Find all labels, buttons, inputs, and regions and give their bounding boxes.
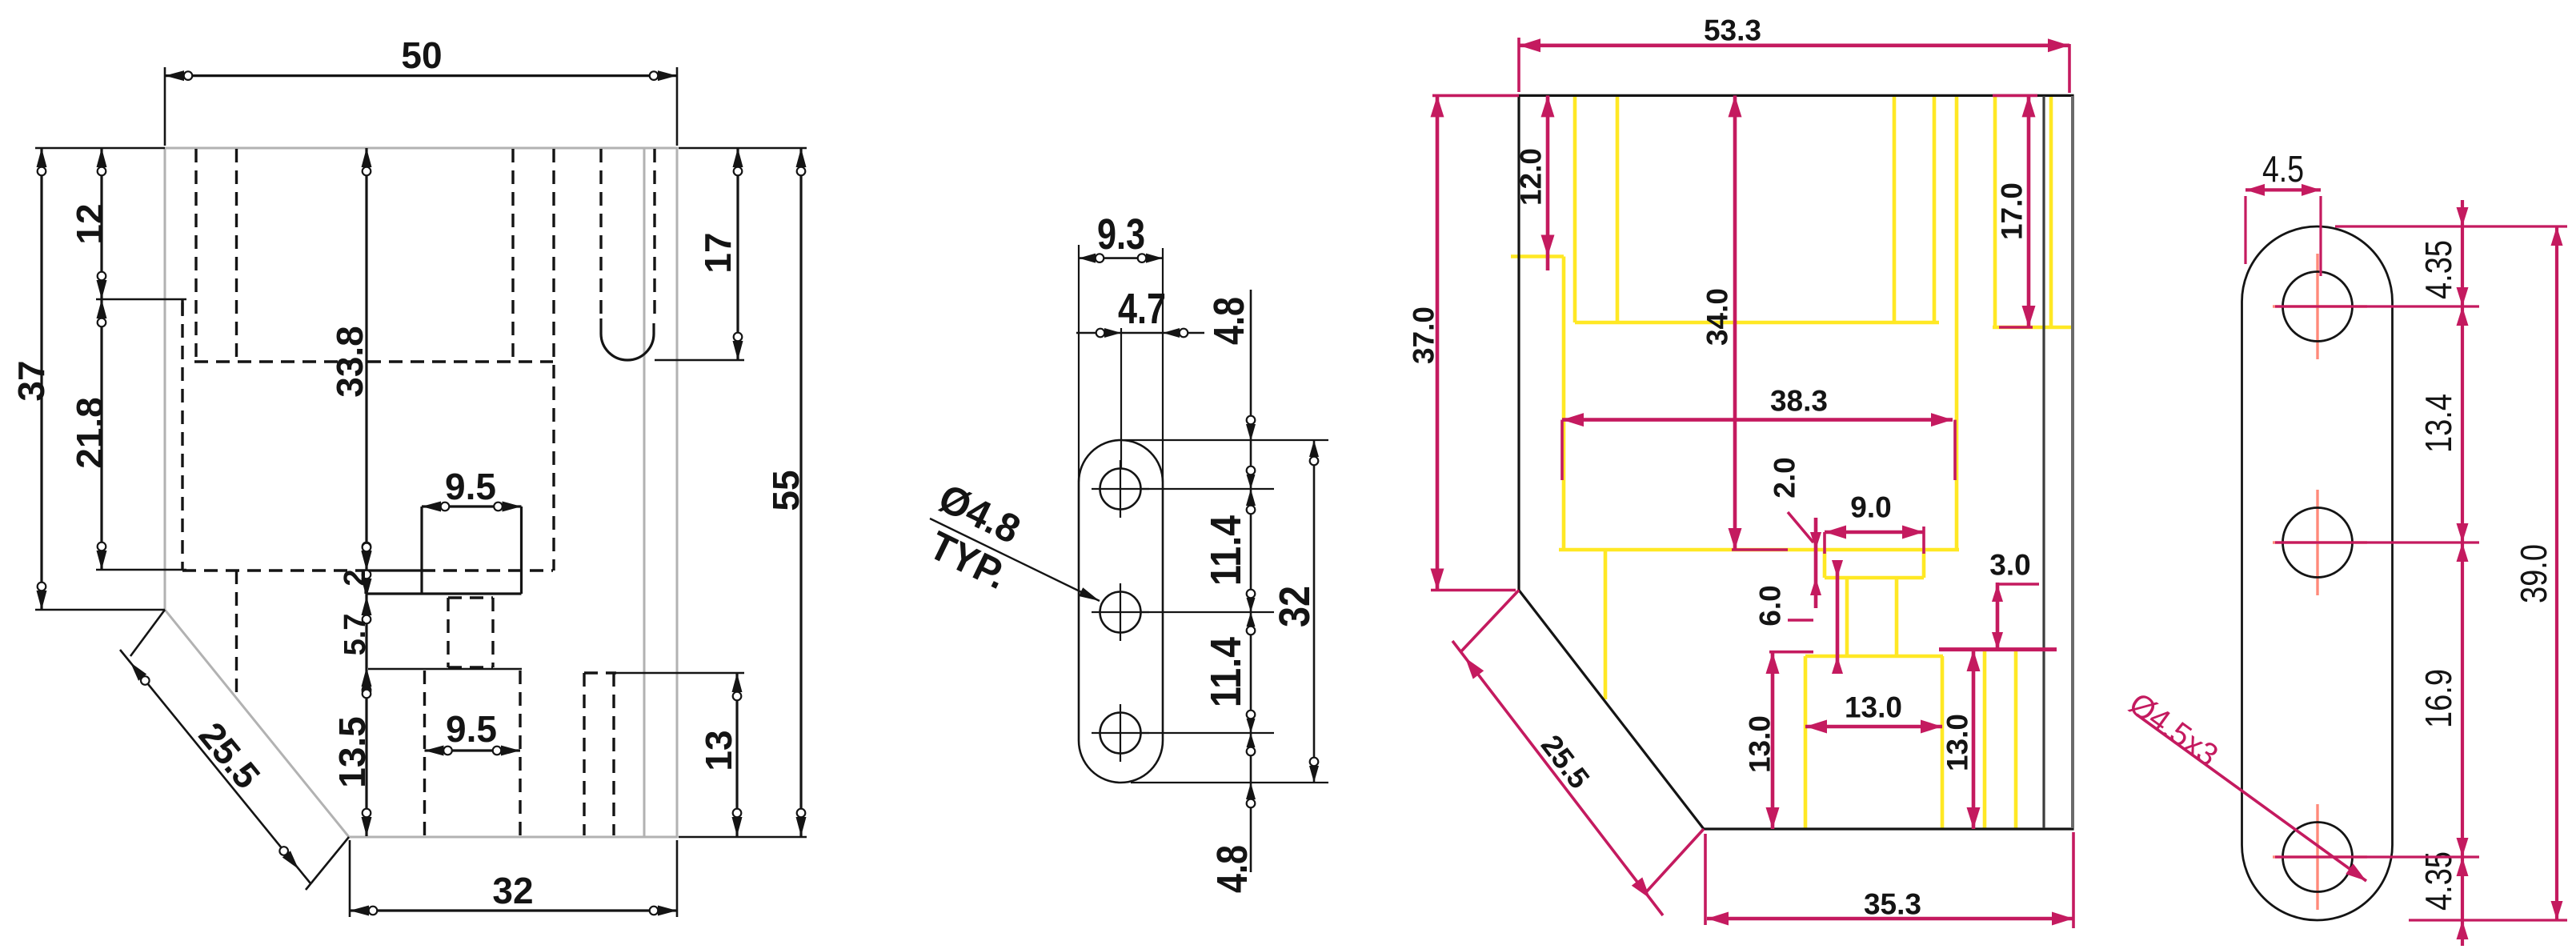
hidden edge: center verticals — [511, 149, 514, 362]
hidden edge: long horizontal at 452 — [194, 360, 553, 362]
dimension 13 (lower right) — [614, 673, 744, 836]
dimension 12.0 — [1515, 95, 1555, 270]
svg-text:4.8: 4.8 — [1205, 297, 1253, 345]
svg-text:9.5: 9.5 — [446, 708, 497, 750]
svg-text:11.4: 11.4 — [1202, 637, 1250, 707]
yellow hidden: long horizontal — [1575, 321, 1939, 325]
dimension 25.5 (chamfer) — [120, 610, 349, 890]
svg-text:6.0: 6.0 — [1754, 585, 1787, 626]
U-shaped slot (solid) — [601, 318, 654, 360]
yellow hidden: left step — [1511, 254, 1564, 258]
svg-text:4.7: 4.7 — [1118, 285, 1166, 333]
bend line (gray) — [643, 149, 646, 836]
hidden edge: lower 9.5 slot — [423, 671, 426, 835]
svg-text:13.0: 13.0 — [1941, 714, 1974, 771]
dimension 35.3 — [1705, 832, 2073, 928]
hidden edge: left step vertical — [181, 302, 183, 570]
dimension 50 (top) — [165, 34, 677, 146]
hole center marks — [1092, 460, 1149, 762]
svg-text:50: 50 — [401, 34, 442, 76]
svg-text:2.0: 2.0 — [1769, 457, 1801, 498]
hole 3 — [1100, 713, 1141, 754]
view 4: slotted strip (black outline, magenta dims) — [2122, 148, 2567, 946]
yellow hidden: center verticals — [1893, 97, 1897, 322]
hidden edge: horizontal at 713 — [182, 569, 367, 571]
svg-text:3.0: 3.0 — [1989, 549, 2030, 582]
dimension 4.7 — [1076, 285, 1204, 468]
plate outline (stadium) — [2242, 226, 2393, 920]
svg-text:12.0: 12.0 — [1515, 148, 1548, 206]
view 2: slotted strip side view (black) — [923, 210, 1328, 893]
dimension 2.0 with leader — [1769, 457, 1822, 608]
leader Ø4.5x3 — [2122, 687, 2366, 881]
hole center marks (salmon) — [2273, 254, 2367, 910]
view 3: colored flat-pattern (magenta dims, yellow hidden lines) — [1408, 14, 2075, 929]
dimension 4.5 — [2245, 148, 2321, 276]
dimension 33.8 / 2 / 5.7 / 13.5 column — [329, 148, 522, 836]
svg-text:39.0: 39.0 — [2513, 544, 2554, 603]
hidden edge: slot sides — [599, 149, 602, 320]
svg-text:38.3: 38.3 — [1770, 385, 1828, 418]
svg-text:13.5: 13.5 — [331, 716, 373, 788]
dimension 12 — [69, 148, 186, 299]
part outline (black) — [1519, 95, 2073, 829]
svg-text:12: 12 — [69, 203, 110, 244]
dimension 25.5 (view3 chamfer) — [1452, 591, 1704, 916]
svg-text:4.5: 4.5 — [2262, 148, 2304, 190]
svg-text:55: 55 — [765, 470, 807, 511]
svg-text:13.4: 13.4 — [2418, 394, 2459, 453]
svg-text:9.0: 9.0 — [1850, 491, 1891, 524]
yellow hidden: long center vertical — [1955, 97, 1959, 550]
svg-text:9.5: 9.5 — [445, 466, 496, 507]
dimension 32 (view2) — [1124, 440, 1328, 783]
hidden edge: upper-left verticals — [194, 149, 197, 362]
dimension 37.0 — [1408, 95, 1520, 590]
svg-text:21.8: 21.8 — [69, 397, 110, 469]
dimension column 4.35 / 13.4 / 16.9 / 4.35 — [2418, 200, 2469, 946]
dimension 55 (right) — [679, 148, 807, 837]
svg-text:2: 2 — [339, 569, 372, 586]
bend line — [2042, 96, 2045, 828]
dimension 9.5 (lower) — [425, 708, 521, 756]
dimension 9.5 (upper) — [422, 466, 522, 512]
yellow hidden: lower 13.0 box — [1805, 655, 1943, 659]
solid tab feature — [366, 507, 522, 594]
dimension 13.0 middle — [1805, 691, 1942, 734]
hidden lines (dashed) — [182, 149, 655, 835]
dimension 9.3 — [1079, 210, 1163, 482]
dimension 17.0 — [1993, 95, 2037, 327]
svg-text:13.0: 13.0 — [1744, 715, 1777, 773]
svg-text:32: 32 — [1271, 586, 1319, 627]
hole A — [2283, 272, 2353, 342]
svg-text:17: 17 — [697, 232, 739, 273]
svg-text:13: 13 — [698, 730, 739, 771]
view 1: flat-pattern drawing of bracket (black dims, gray outline) — [10, 34, 807, 917]
dimension 37 (left) — [10, 148, 165, 610]
svg-text:4.8: 4.8 — [1208, 845, 1256, 893]
yellow hidden: right slot verticals — [1993, 97, 1997, 327]
svg-text:11.4: 11.4 — [1202, 515, 1250, 586]
svg-text:13.0: 13.0 — [1845, 691, 1902, 724]
dimension 53.3 — [1519, 14, 2069, 94]
dimension 13.0 left — [1744, 652, 1814, 829]
yellow hidden: horizontal at 687 — [1559, 548, 1959, 552]
dimension 6.0 — [1754, 560, 1844, 674]
hole 1 — [1100, 469, 1141, 510]
yellow hidden: middle stem — [1845, 578, 1849, 656]
svg-text:37: 37 — [10, 360, 52, 401]
hidden edge: lower-right slot — [584, 671, 616, 674]
yellow hidden: lower-right slot — [1983, 650, 1987, 829]
dimension 4.8 top / 11.4 / 11.4 / 4.8 bottom column — [1202, 290, 1256, 893]
dimension 17 (upper right) — [655, 148, 744, 360]
leader Ø4.8 TYP. — [923, 475, 1100, 601]
svg-text:33.8: 33.8 — [329, 326, 371, 398]
dimension 38.3 — [1562, 385, 1955, 481]
plate outline (stadium) — [1079, 440, 1163, 783]
hole C — [2283, 823, 2353, 892]
yellow hidden: vertical to chamfer — [1604, 550, 1608, 699]
dimension 39.0 — [2513, 226, 2563, 920]
svg-text:5.7: 5.7 — [339, 614, 372, 656]
dimension 32 (bottom) — [350, 840, 677, 917]
right edge gray overlay — [2071, 96, 2074, 828]
part outline (gray) — [165, 148, 677, 837]
hole B — [2283, 508, 2353, 578]
svg-text:4.35: 4.35 — [2418, 851, 2459, 911]
extension lines (view4, magenta) — [2275, 226, 2567, 920]
svg-text:34.0: 34.0 — [1701, 288, 1734, 346]
svg-text:9.3: 9.3 — [1097, 210, 1145, 258]
svg-text:53.3: 53.3 — [1704, 14, 1761, 47]
dimension 9.0 — [1825, 491, 1924, 555]
svg-text:16.9: 16.9 — [2418, 669, 2459, 728]
yellow hidden: upper-left verticals — [1573, 97, 1577, 322]
svg-text:17.0: 17.0 — [1996, 182, 2029, 240]
svg-text:37.0: 37.0 — [1408, 306, 1440, 364]
yellow hidden lines — [1511, 97, 2074, 829]
svg-text:4.35: 4.35 — [2418, 240, 2459, 299]
dimension 3.0 — [1989, 549, 2039, 651]
dimension 21.8 — [69, 299, 186, 570]
hole 2 — [1100, 592, 1141, 633]
dimension 13.0 right — [1941, 650, 1981, 829]
extension line (13.0 right top) — [1939, 647, 2057, 651]
svg-text:35.3: 35.3 — [1864, 888, 1921, 921]
hidden edge: small middle box — [447, 598, 449, 667]
dimension 34.0 — [1701, 95, 1789, 550]
svg-text:32: 32 — [492, 870, 533, 911]
yellow hidden: 9.0 box — [1823, 550, 1827, 578]
